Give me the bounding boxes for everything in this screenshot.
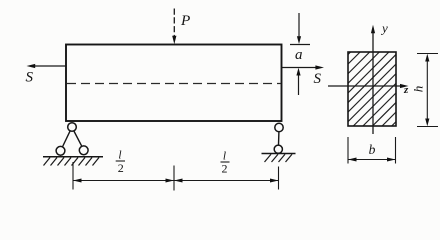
right support roller circle bbox=[274, 145, 282, 153]
svg-text:l: l bbox=[118, 150, 121, 162]
svg-text:a: a bbox=[295, 47, 303, 63]
left support right leg bbox=[74, 131, 82, 146]
beam dashed axis centerline bbox=[67, 83, 281, 85]
svg-text:b: b bbox=[369, 142, 376, 157]
left ground hatching bbox=[44, 158, 100, 166]
label l/2 right bbox=[221, 150, 230, 175]
dimension b left extension line bbox=[347, 137, 349, 164]
left support right roller circle bbox=[79, 146, 88, 155]
left support left leg bbox=[62, 131, 70, 147]
svg-text:S: S bbox=[314, 71, 322, 87]
svg-text:2: 2 bbox=[118, 161, 124, 175]
right support pin circle bbox=[275, 123, 283, 131]
dimension a upper arrow bbox=[297, 13, 301, 44]
force S left arrow bbox=[27, 64, 67, 68]
left support pin circle bbox=[68, 123, 77, 132]
span dimension right extension line bbox=[278, 167, 280, 190]
dimension h line with arrows bbox=[425, 54, 429, 126]
left ground line bbox=[43, 156, 103, 158]
svg-text:S: S bbox=[26, 70, 34, 86]
span dimension line l/2 + l/2 bbox=[73, 179, 279, 183]
svg-text:P: P bbox=[180, 12, 190, 29]
svg-text:y: y bbox=[380, 20, 388, 35]
svg-text:z: z bbox=[403, 84, 409, 96]
dimension b right extension line bbox=[395, 137, 397, 164]
span dimension middle extension line bbox=[173, 166, 175, 191]
left support left roller circle bbox=[56, 146, 65, 155]
y axis bbox=[371, 25, 375, 134]
svg-text:h: h bbox=[411, 86, 426, 93]
label l/2 left bbox=[116, 150, 125, 175]
beam outline bbox=[66, 45, 282, 122]
cross-section hatching bbox=[330, 0, 410, 188]
span dimension left extension line bbox=[72, 162, 74, 190]
dimension a extension tick bbox=[290, 44, 310, 46]
dimension h top tick bbox=[417, 53, 438, 55]
right ground line bbox=[262, 153, 296, 155]
dimension a lower arrow bbox=[296, 68, 300, 95]
z axis bbox=[328, 84, 409, 88]
right ground hatching bbox=[265, 154, 293, 162]
svg-text:l: l bbox=[223, 150, 226, 162]
dimension b line with arrows bbox=[348, 158, 396, 162]
dimension h bottom tick bbox=[417, 126, 438, 128]
force S right arrow bbox=[282, 65, 325, 69]
load P arrow bbox=[172, 9, 176, 45]
svg-text:2: 2 bbox=[222, 162, 228, 176]
right support link bbox=[278, 132, 280, 146]
cross-section rectangle bbox=[348, 52, 396, 126]
